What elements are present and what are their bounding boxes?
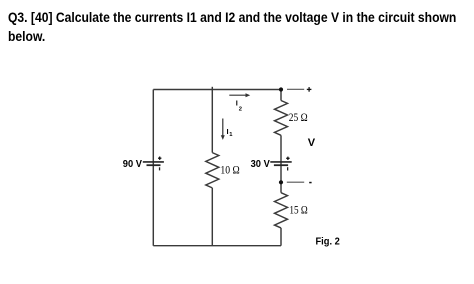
minus terminal symbol — [309, 182, 311, 184]
svg-text:90 V: 90 V — [123, 159, 143, 170]
node dot at battery bottom junction — [279, 180, 283, 184]
resistor 25 ohm zigzag — [275, 101, 288, 136]
svg-text:1: 1 — [229, 132, 233, 138]
battery 90V top plate — [143, 161, 164, 163]
plus terminal symbol — [307, 87, 312, 92]
battery 30V bottom plate — [274, 164, 288, 166]
current arrow I1 — [221, 119, 225, 140]
svg-text:I: I — [227, 127, 229, 136]
battery 30V plus mark — [286, 157, 289, 160]
battery 90V plus mark — [158, 157, 161, 160]
dashed lead to plus terminal — [287, 88, 304, 90]
wire: top horizontal — [153, 89, 281, 91]
resistor 15 ohm zigzag — [275, 193, 288, 228]
svg-text:15 Ω: 15 Ω — [289, 203, 307, 217]
node dot top right — [279, 87, 283, 91]
svg-text:I: I — [236, 98, 238, 107]
svg-text:10 Ω: 10 Ω — [220, 162, 239, 176]
dashed lead to minus terminal — [287, 181, 304, 183]
battery 90V minus tick — [159, 167, 160, 170]
current arrow I2 — [229, 93, 250, 97]
wire: right vertical upper — [280, 90, 282, 101]
wire: bottom horizontal — [153, 245, 281, 247]
wire: middle vertical upper — [211, 87, 213, 153]
resistor 10 ohm zigzag — [206, 153, 219, 188]
title text — [8, 8, 456, 47]
wire: right vertical lower — [280, 228, 282, 246]
wire: left vertical — [152, 90, 154, 246]
battery 30V minus tick — [287, 167, 288, 170]
battery 90V bottom plate — [147, 164, 161, 166]
svg-text:V: V — [308, 137, 316, 149]
svg-text:Fig. 2: Fig. 2 — [316, 236, 341, 247]
wire: right vertical middle — [280, 135, 282, 192]
wire: middle vertical lower — [211, 188, 213, 246]
battery 30V top plate — [270, 161, 291, 163]
svg-text:2: 2 — [239, 107, 242, 113]
svg-text:30 V: 30 V — [251, 159, 271, 170]
svg-text:25 Ω: 25 Ω — [289, 110, 308, 124]
